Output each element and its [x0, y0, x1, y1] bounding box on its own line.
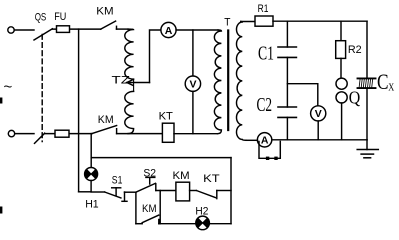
wire (divider tap to V2)	[287, 84, 317, 106]
transformer T primary winding	[214, 30, 221, 134]
wire (HV bottom bus)	[272, 139, 367, 141]
svg-text:R2: R2	[348, 44, 362, 56]
transformer T core	[227, 31, 229, 131]
ammeter A2	[257, 133, 271, 147]
wire (control right edge)	[230, 158, 232, 224]
terminal X1 (top supply)	[8, 27, 14, 33]
node (V branch top)	[192, 30, 194, 76]
indicator lamp H1	[85, 168, 98, 181]
wire	[15, 133, 34, 135]
fuse FU2	[55, 130, 69, 137]
resistor R2	[336, 41, 346, 59]
wire (control top rail)	[91, 157, 231, 159]
label CX	[377, 69, 395, 94]
terminal X2 (bottom supply)	[8, 130, 14, 136]
wire	[246, 139, 257, 141]
wire	[286, 57, 288, 107]
svg-text:X: X	[388, 82, 394, 93]
scan speck left edge 2	[0, 207, 2, 214]
svg-text:KM: KM	[98, 114, 114, 126]
svg-text:Q: Q	[349, 87, 361, 107]
wire	[340, 58, 342, 78]
contactor aux contact KM	[136, 215, 159, 224]
wire	[45, 133, 92, 135]
switch QS link (dashed)	[41, 35, 43, 142]
svg-text:A: A	[261, 135, 269, 147]
svg-text:C: C	[377, 69, 389, 94]
voltmeter V1	[185, 76, 200, 91]
wire	[286, 117, 288, 139]
ammeter A1	[161, 22, 176, 37]
ground	[357, 140, 378, 158]
contactor coil KM	[176, 182, 190, 201]
timer contact KT (NC)	[196, 191, 216, 199]
transformer T secondary winding	[236, 22, 246, 141]
wire (tap riser)	[150, 30, 162, 83]
svg-text:C2: C2	[257, 95, 273, 116]
wire (control bottom rail)	[159, 223, 231, 225]
wire	[176, 29, 218, 31]
switch QS pole 2	[35, 133, 45, 143]
indicator lamp H2	[196, 216, 210, 230]
wire (aux to node2)	[159, 191, 161, 224]
svg-text:C1: C1	[258, 44, 274, 65]
svg-text:KT: KT	[203, 173, 220, 185]
wire	[156, 190, 176, 192]
wire	[125, 191, 136, 193]
svg-text:S1: S1	[112, 175, 123, 187]
svg-text:QS: QS	[35, 12, 47, 24]
capacitor C2	[278, 107, 296, 117]
wire	[241, 21, 255, 23]
scan speck left edge 1	[0, 98, 2, 104]
svg-text:~: ~	[4, 79, 13, 96]
wire (C1 column)	[286, 21, 288, 47]
wire (HV top bus)	[273, 20, 367, 22]
relay coil KT	[162, 123, 174, 142]
resistor R1	[255, 16, 273, 26]
wire	[79, 191, 92, 193]
switch QS pole 1	[34, 29, 52, 40]
wire	[190, 190, 197, 192]
svg-text:R1: R1	[258, 3, 269, 15]
wire	[117, 133, 163, 135]
svg-text:T: T	[224, 17, 230, 29]
svg-text:KM: KM	[173, 170, 190, 182]
contactor contact KM2	[92, 126, 117, 134]
pushbutton S1 (NC stop)	[105, 188, 127, 202]
ammeter shorting link	[259, 142, 280, 161]
TZ tap arrow	[127, 80, 150, 86]
wire	[217, 190, 231, 192]
wire	[90, 181, 92, 192]
voltmeter V2	[311, 106, 326, 121]
sphere gap Q	[336, 78, 347, 103]
svg-text:A: A	[165, 25, 173, 37]
wire	[192, 91, 194, 133]
wire	[366, 88, 368, 139]
contactor contact KM1	[101, 21, 117, 29]
svg-text:KM: KM	[96, 5, 113, 17]
wire	[341, 103, 343, 140]
wire (control tap vertical)	[90, 134, 92, 168]
wire	[91, 191, 105, 193]
svg-text:FU: FU	[54, 11, 66, 23]
wire	[317, 121, 319, 140]
wire (aux branch down)	[135, 192, 137, 224]
svg-text:V: V	[315, 108, 322, 120]
wire	[117, 28, 129, 30]
fuse FU1	[57, 26, 70, 33]
svg-text:KM: KM	[142, 203, 157, 215]
pushbutton S2 (NO start)	[136, 177, 156, 192]
svg-text:V: V	[189, 79, 196, 91]
svg-text:KT: KT	[159, 110, 173, 122]
wire	[14, 29, 34, 31]
wire	[52, 28, 100, 30]
wire	[174, 133, 218, 135]
capacitor C1	[278, 47, 296, 57]
wire (phase tap long vertical)	[78, 29, 80, 192]
wire (CX column)	[366, 21, 368, 78]
svg-text:TZ: TZ	[112, 75, 131, 87]
svg-text:H1: H1	[85, 199, 99, 211]
test object CX (hatched)	[358, 78, 376, 88]
wire (R2 column)	[340, 21, 342, 41]
autotransformer TZ winding	[125, 29, 134, 134]
